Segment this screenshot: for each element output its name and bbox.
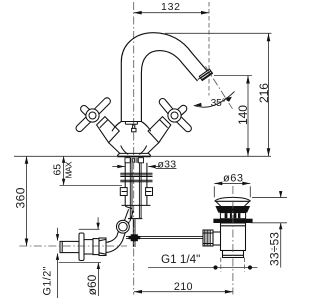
spout outlet vertical dashed axis bbox=[208, 2, 210, 96]
svg-text:ø63: ø63 bbox=[223, 173, 243, 185]
dimension 216 extension line from spout top bbox=[165, 32, 272, 34]
faucet vertical centerline bbox=[133, 2, 135, 295]
right handle bonnet bbox=[148, 117, 171, 143]
drain flange band bbox=[213, 219, 252, 223]
dimension 210 bbox=[134, 291, 233, 293]
faucet body lower diagonals to base bbox=[109, 143, 159, 154]
spout outlet end line bbox=[198, 72, 209, 79]
pop-up lift rod below shank bbox=[133, 219, 135, 247]
threaded shank bbox=[122, 163, 151, 206]
dimension 33:53 bbox=[280, 191, 282, 268]
leader dots bbox=[213, 265, 252, 269]
faucet body shoulders bbox=[112, 122, 151, 132]
spout curve inner edge bbox=[141, 51, 197, 122]
supply horizontal centerline bbox=[19, 245, 127, 247]
svg-text:G1 1/4": G1 1/4" bbox=[161, 253, 200, 266]
mounting nuts bbox=[120, 188, 152, 196]
drain plug cap bbox=[215, 197, 251, 206]
drain body bbox=[221, 223, 246, 251]
35-degree arc arrows bbox=[194, 97, 232, 107]
spout curve outer edge bbox=[121, 33, 207, 122]
spout aerator cap bbox=[199, 69, 212, 80]
mounting washer set 2 bbox=[120, 180, 152, 182]
right handle hub bbox=[168, 109, 181, 122]
faucet body valley curves bbox=[121, 146, 147, 155]
dimension o33 arrows bbox=[112, 167, 176, 169]
cross handle left spokes bbox=[79, 101, 107, 128]
svg-text:132: 132 bbox=[161, 1, 180, 13]
svg-text:33÷53: 33÷53 bbox=[267, 232, 281, 266]
horizontal pop-up rod to drain bbox=[126, 236, 203, 238]
dimension 140 bbox=[247, 76, 249, 157]
left handle bonnet bbox=[97, 117, 120, 143]
svg-text:140: 140 bbox=[236, 105, 250, 125]
dimension 360 bbox=[26, 156, 28, 246]
curved supply pipe to faucet bbox=[106, 206, 133, 252]
wall flange bbox=[79, 233, 84, 261]
35-degree angle arc bbox=[194, 92, 235, 108]
svg-text:ø60: ø60 bbox=[85, 274, 99, 295]
compression nut on supply pipe bbox=[117, 220, 130, 233]
dimension 216 bbox=[268, 33, 270, 156]
drain slotted ring bbox=[220, 213, 245, 219]
mounting washer set 1 bbox=[120, 173, 152, 176]
svg-text:MAX: MAX bbox=[64, 161, 74, 178]
drain rod stub bbox=[213, 232, 221, 245]
valve body bbox=[84, 238, 106, 256]
G1 1/4 leader line bbox=[148, 267, 258, 269]
base bottom edge on deck bbox=[117, 155, 150, 157]
supply pipes inside shank bbox=[128, 163, 142, 219]
cross handle right spokes bbox=[163, 102, 188, 128]
svg-text:ø33: ø33 bbox=[158, 158, 177, 170]
pop-up knob pin bbox=[132, 124, 136, 132]
svg-text:G1/2": G1/2" bbox=[41, 266, 53, 295]
dimension 65 MAX bbox=[60, 156, 123, 185]
svg-text:65: 65 bbox=[51, 164, 63, 176]
svg-text:360: 360 bbox=[14, 187, 28, 208]
supply inlet stub bbox=[60, 241, 79, 252]
dimension G1/2 leader bbox=[57, 228, 59, 298]
drain vertical centerline bbox=[232, 186, 234, 295]
dimension 140 extension line from outlet bbox=[214, 75, 252, 77]
left handle hub bbox=[86, 109, 99, 122]
dimension o63 bbox=[214, 183, 250, 197]
svg-text:35°: 35° bbox=[211, 98, 226, 109]
deck line bbox=[14, 155, 271, 157]
svg-text:210: 210 bbox=[174, 281, 193, 293]
svg-text:216: 216 bbox=[257, 83, 271, 103]
faucet base bbox=[117, 153, 150, 156]
drain plug rim band bbox=[215, 206, 250, 213]
thread band below base bbox=[125, 158, 144, 163]
drain edge dashed extensions bbox=[221, 258, 245, 273]
drain knurled knob bbox=[203, 230, 213, 246]
dimension 33:53 extension lines bbox=[251, 198, 288, 223]
dimension o60 bbox=[59, 217, 101, 296]
spout outlet 35-degree slant centerline bbox=[206, 66, 233, 108]
rod clamp joint bbox=[129, 234, 141, 241]
drain tailpipe bbox=[223, 251, 244, 258]
dimension 132 bbox=[134, 12, 209, 14]
column bottom flange bbox=[121, 122, 141, 125]
